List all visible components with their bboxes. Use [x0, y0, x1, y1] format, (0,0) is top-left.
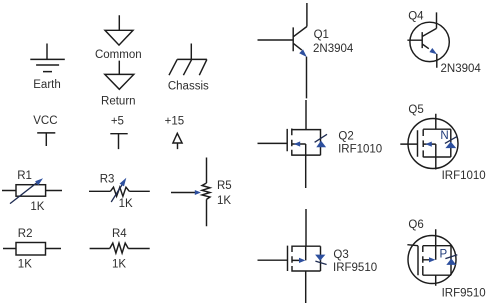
VCC power symbol: [37, 133, 55, 146]
svg-text:N: N: [440, 130, 448, 142]
transistor Q6 (P-MOSFET IRF9510, circled): [407, 229, 457, 286]
transistor Q3 (P-MOSFET IRF9510): [258, 209, 327, 303]
svg-text:Q5: Q5: [408, 104, 423, 116]
transistor Q5 (N-MOSFET IRF1010, circled): [400, 114, 458, 170]
svg-text:Q3: Q3: [333, 249, 348, 261]
earth ground symbol: [30, 44, 65, 72]
chassis ground symbol: [169, 44, 207, 76]
svg-text:2N3904: 2N3904: [313, 43, 354, 55]
svg-text:1K: 1K: [112, 259, 126, 271]
svg-text:Q1: Q1: [314, 29, 329, 41]
resistor R4 (zigzag): [90, 243, 150, 253]
svg-text:2N3904: 2N3904: [441, 63, 482, 75]
svg-text:Common: Common: [95, 49, 142, 61]
svg-text:R2: R2: [18, 228, 33, 240]
resistor R3 (variable, zigzag): [89, 178, 150, 202]
svg-text:Earth: Earth: [33, 79, 61, 91]
svg-text:R1: R1: [17, 170, 32, 182]
svg-text:R5: R5: [217, 180, 232, 192]
svg-text:R4: R4: [112, 228, 127, 240]
svg-text:IRF9510: IRF9510: [333, 262, 377, 274]
svg-text:IRF9510: IRF9510: [442, 288, 486, 300]
resistor R2 (box): [3, 243, 61, 256]
transistor Q4 (NPN, circled): [407, 12, 449, 67]
svg-text:+15: +15: [165, 116, 185, 128]
svg-text:IRF1010: IRF1010: [338, 144, 382, 156]
+15 power symbol: [173, 133, 182, 149]
svg-text:1K: 1K: [18, 259, 32, 271]
svg-text:Q4: Q4: [408, 11, 424, 23]
transistor Q2 (N-MOSFET IRF1010): [258, 100, 328, 188]
svg-text:Q2: Q2: [338, 130, 353, 142]
return ground symbol: [105, 61, 134, 90]
svg-text:P: P: [440, 249, 448, 261]
common ground symbol: [105, 15, 133, 45]
potentiometer R5: [171, 158, 210, 227]
svg-text:Chassis: Chassis: [168, 81, 209, 93]
svg-text:R3: R3: [100, 174, 115, 186]
+5 power symbol: [110, 134, 127, 149]
svg-text:VCC: VCC: [33, 115, 57, 127]
svg-text:Return: Return: [101, 96, 136, 108]
resistor R1 (variable, box): [2, 178, 62, 203]
svg-text:IRF1010: IRF1010: [442, 170, 486, 182]
svg-text:1K: 1K: [119, 198, 133, 210]
transistor Q1 (NPN): [258, 3, 307, 98]
svg-text:Q6: Q6: [408, 219, 423, 231]
svg-text:+5: +5: [111, 116, 124, 128]
svg-text:1K: 1K: [217, 195, 231, 207]
svg-text:1K: 1K: [30, 201, 44, 213]
